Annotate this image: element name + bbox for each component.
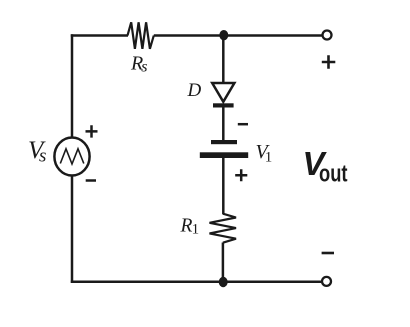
wire: top horizontal, left of Rs (71, 34, 128, 37)
wire: diode to battery (222, 107, 225, 141)
svg-text:R: R (180, 216, 193, 237)
label V1 (256, 141, 273, 166)
junction dot: bottom node (219, 277, 228, 287)
svg-text:D: D (187, 80, 202, 101)
source Vs circle (54, 138, 89, 176)
svg-text:out: out (319, 161, 348, 188)
polarity - at output bottom (322, 252, 334, 255)
wire: bottom horizontal (71, 280, 321, 283)
polarity + at output top (322, 55, 336, 68)
svg-text:1: 1 (265, 150, 273, 166)
wire: middle branch, top node to diode (222, 36, 225, 85)
wire: top horizontal, Rs to top-right terminal (154, 34, 322, 37)
wire: left vertical, top segment (71, 34, 74, 139)
source Vs triangle-wave symbol (60, 149, 84, 164)
terminal: top-right open circle (323, 31, 332, 40)
svg-text:s: s (39, 146, 46, 167)
battery V1 short plate (211, 140, 237, 144)
battery V1 long plate (200, 152, 248, 158)
polarity + at Vs top (86, 125, 98, 137)
label Rs (130, 53, 148, 76)
wire: battery to R1 (222, 158, 225, 214)
wire: R1 to bottom node (222, 243, 225, 283)
polarity - at diode cathode (238, 123, 248, 126)
terminal: bottom-right open circle (322, 277, 331, 286)
resistor Rs (128, 22, 154, 49)
junction dot: top node (219, 30, 228, 40)
diode D cathode bar (213, 103, 234, 107)
svg-text:s: s (141, 58, 147, 75)
diode D triangle (212, 83, 234, 102)
resistor R1 (210, 214, 237, 243)
polarity + below battery (235, 169, 247, 181)
wire: left vertical, bottom segment (71, 175, 74, 283)
label R1 (180, 216, 200, 238)
label Vs (28, 137, 46, 167)
svg-text:1: 1 (192, 222, 200, 238)
polarity - at Vs bottom (86, 179, 96, 182)
